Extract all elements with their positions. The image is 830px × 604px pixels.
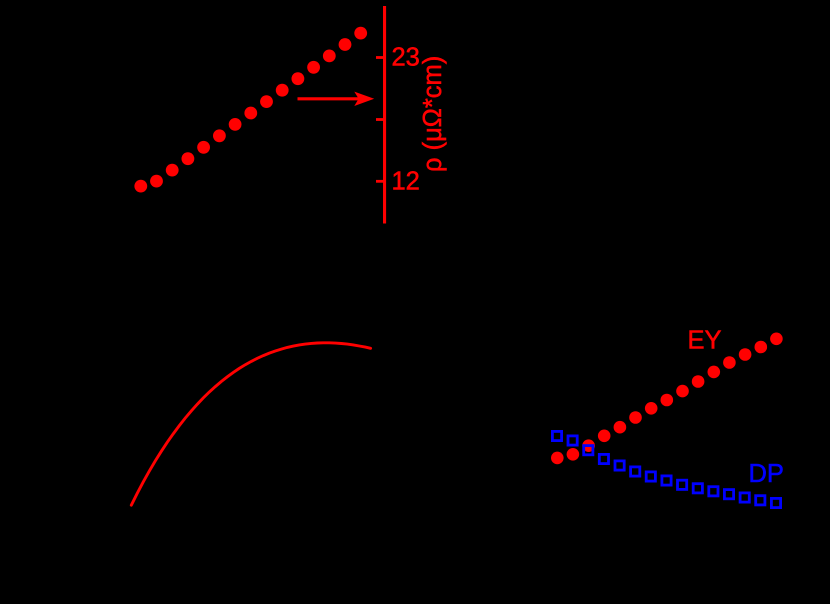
- svg-text:12: 12: [392, 167, 420, 195]
- arrow pointing to right y-axis: [298, 92, 375, 106]
- axis tick (middle, minor): [376, 118, 383, 121]
- spin-lifetime curve (red, bottom-left panel): [131, 343, 370, 505]
- axis tick at 12: [376, 180, 383, 183]
- EY mechanism series (red dots, bottom-right panel): [551, 333, 783, 465]
- svg-text:EY: EY: [688, 327, 722, 355]
- svg-text:23: 23: [392, 43, 420, 71]
- axis tick at 23: [376, 56, 383, 59]
- resistivity data series (red dots, top-left panel): [134, 27, 367, 193]
- right y-axis line (red): [383, 6, 386, 224]
- DP mechanism series (blue open squares, bottom-right panel): [552, 431, 780, 507]
- svg-text:ρ (μΩ*cm): ρ (μΩ*cm): [419, 56, 447, 172]
- svg-text:DP: DP: [749, 460, 784, 488]
